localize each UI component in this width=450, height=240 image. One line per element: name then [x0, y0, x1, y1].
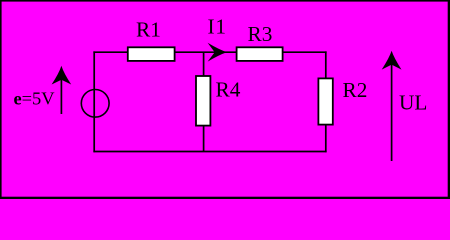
output arrow UL shaft [391, 55, 393, 161]
svg-text:R1: R1 [136, 18, 161, 42]
wire R4 branch bottom [203, 125, 205, 152]
output arrow UL head [382, 51, 402, 70]
source arrow e head [52, 66, 72, 85]
svg-text:R4: R4 [216, 78, 241, 102]
resistor R3 [237, 47, 283, 61]
wire right branch top [325, 51, 327, 79]
resistor R1 [128, 47, 175, 61]
svg-text:R3: R3 [248, 22, 273, 46]
resistor R4 [196, 76, 210, 126]
wire left branch vertical [93, 51, 95, 152]
svg-text:I1: I1 [208, 15, 227, 39]
wire top-middle segment (R1 to R3) [174, 51, 237, 53]
current arrow I1 head [208, 43, 227, 62]
wire top-right segment (R3 to corner) [282, 51, 327, 53]
voltage source circle E [81, 90, 109, 118]
svg-text:e=5V: e=5V [14, 89, 56, 109]
resistor R2 [318, 78, 332, 124]
source arrow e shaft [60, 70, 62, 114]
svg-text:R2: R2 [343, 78, 368, 102]
wire top-left segment [93, 51, 128, 53]
wire bottom segment [93, 151, 326, 153]
wire R4 branch top [203, 52, 205, 77]
wire right branch bottom [325, 124, 327, 152]
svg-text:UL: UL [399, 91, 427, 115]
